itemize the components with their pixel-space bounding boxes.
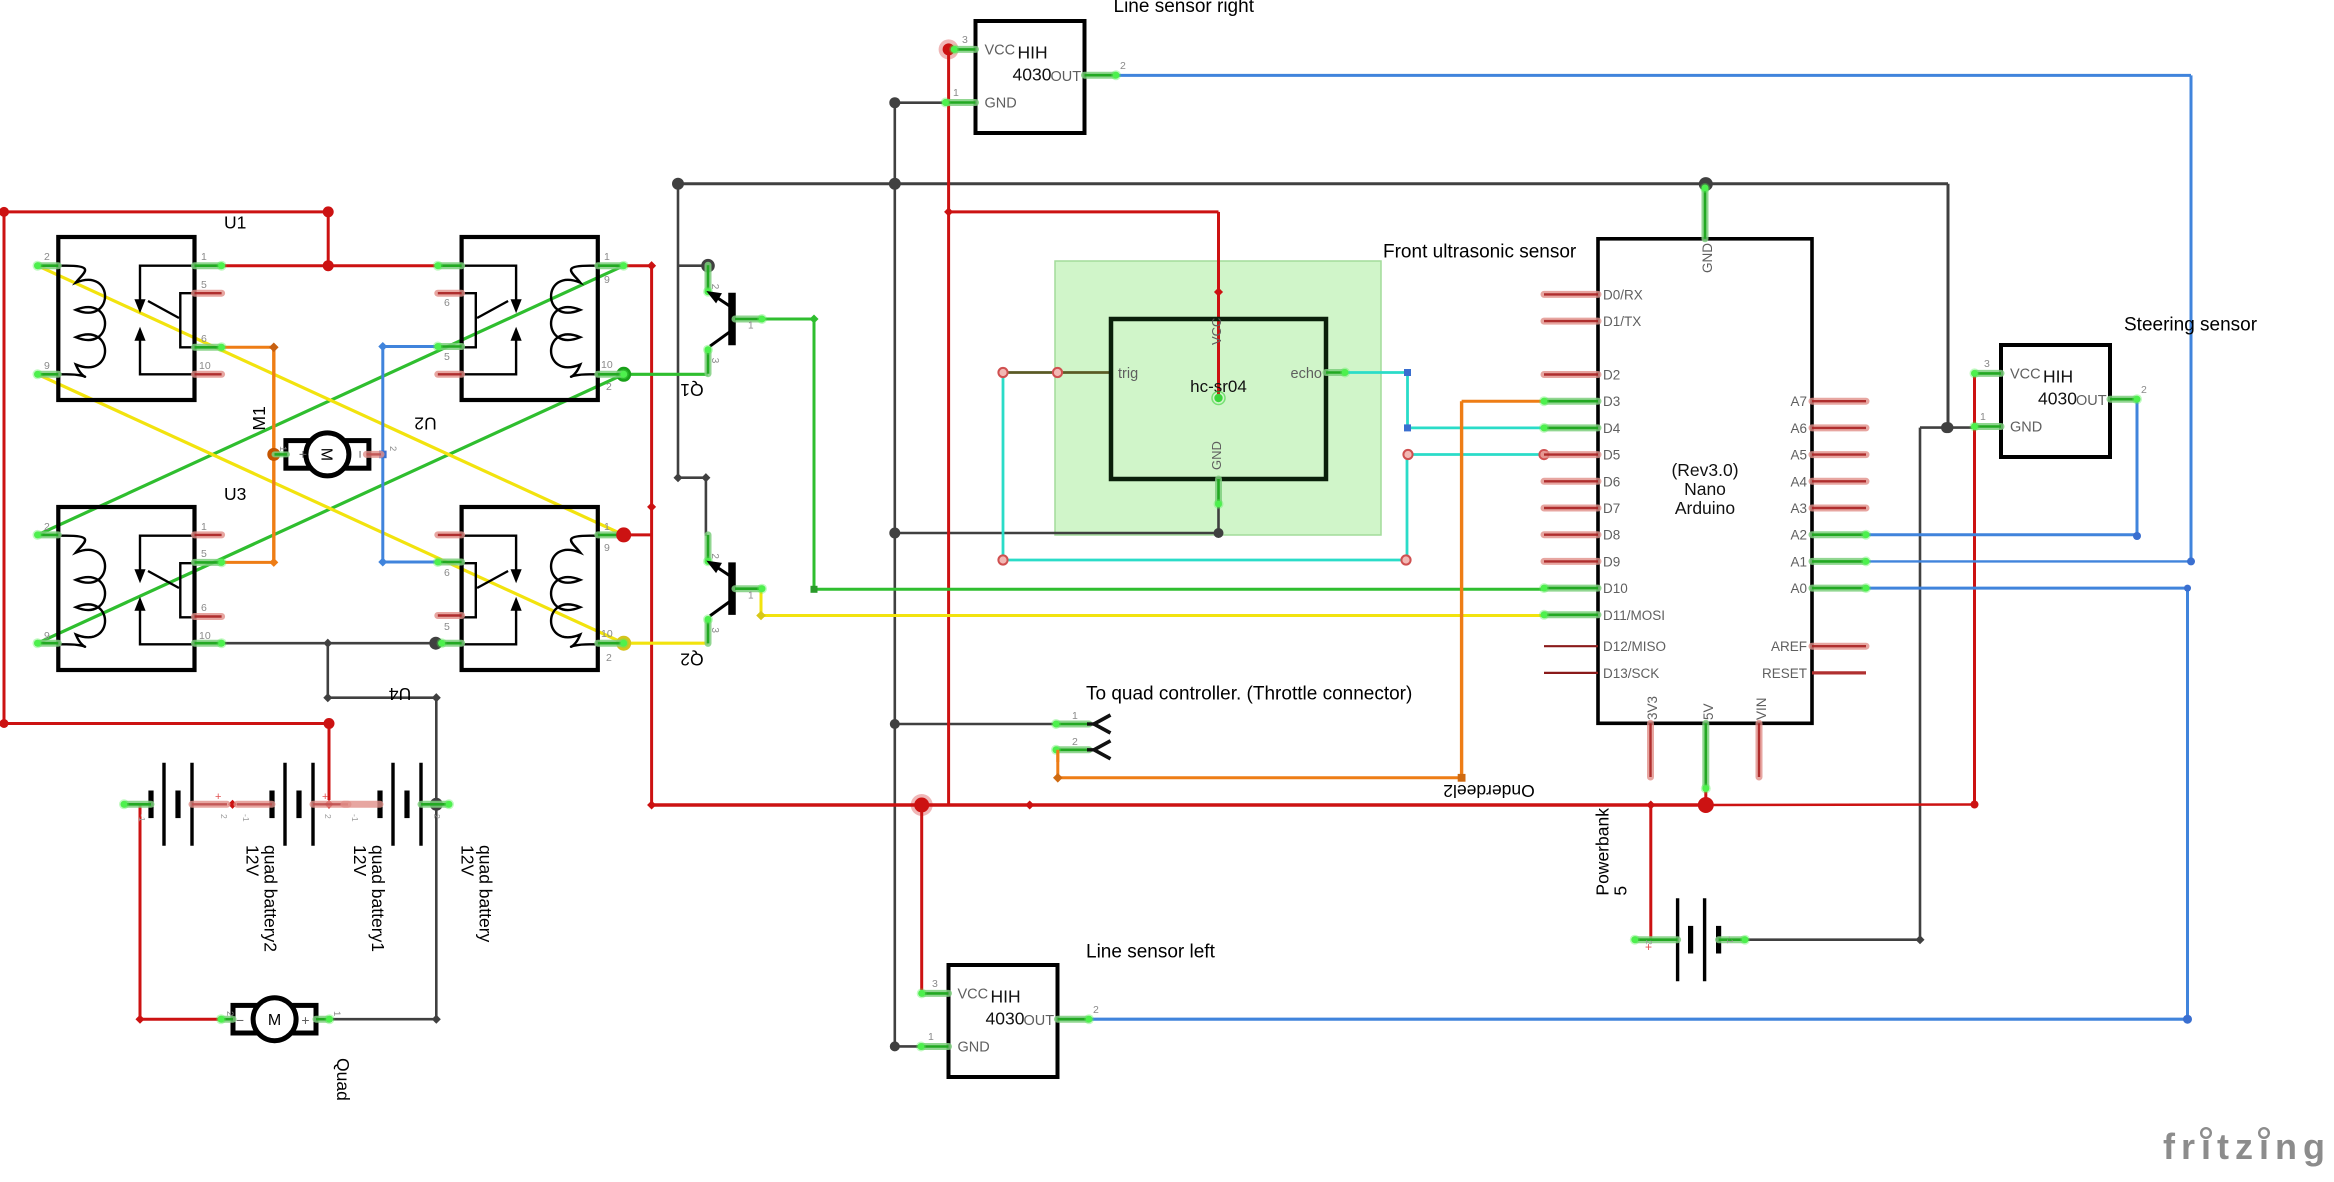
svg-text:1: 1: [277, 446, 288, 451]
svg-text:6: 6: [201, 602, 207, 614]
svg-text:2: 2: [387, 446, 398, 451]
svg-text:trig: trig: [1118, 366, 1138, 382]
svg-text:−: −: [236, 1012, 244, 1028]
svg-text:3V3: 3V3: [1645, 696, 1660, 720]
svg-text:-1: -1: [137, 814, 147, 822]
svg-text:1: 1: [201, 521, 207, 533]
svg-text:2: 2: [709, 553, 720, 559]
svg-text:1: 1: [748, 590, 754, 601]
svg-text:5: 5: [444, 621, 450, 633]
svg-text:-1: -1: [350, 814, 360, 822]
svg-text:+: +: [322, 791, 328, 803]
svg-text:12V: 12V: [458, 845, 478, 876]
svg-text:-1: -1: [1725, 936, 1735, 944]
svg-text:10: 10: [601, 628, 613, 640]
svg-text:1: 1: [201, 251, 207, 263]
svg-text:5: 5: [201, 548, 207, 560]
svg-text:1: 1: [1072, 710, 1078, 722]
svg-text:D9: D9: [1603, 554, 1620, 569]
svg-text:Q1: Q1: [680, 380, 703, 400]
svg-text:5: 5: [201, 279, 207, 291]
svg-text:10: 10: [199, 360, 211, 372]
svg-text:2: 2: [432, 814, 442, 819]
svg-text:2: 2: [1644, 940, 1654, 945]
svg-text:AREF: AREF: [1771, 639, 1807, 654]
svg-text:VCC: VCC: [1209, 318, 1224, 345]
svg-text:1: 1: [1980, 411, 1986, 423]
svg-text:HIH: HIH: [1018, 42, 1048, 62]
svg-text:D0/RX: D0/RX: [1603, 287, 1643, 302]
svg-text:10: 10: [601, 359, 613, 371]
svg-text:OUT: OUT: [1024, 1013, 1055, 1029]
svg-text:Quad: Quad: [333, 1058, 353, 1101]
svg-text:A5: A5: [1790, 448, 1807, 463]
svg-text:M: M: [268, 1012, 281, 1029]
svg-text:To quad controller. (Throttle: To quad controller. (Throttle connector): [1086, 684, 1412, 705]
svg-text:+: +: [215, 791, 221, 803]
svg-text:quad battery1: quad battery1: [368, 845, 388, 952]
svg-text:Q2: Q2: [680, 650, 703, 670]
svg-text:2: 2: [606, 381, 612, 393]
svg-text:12V: 12V: [243, 845, 263, 876]
svg-text:2: 2: [219, 814, 229, 819]
svg-text:+: +: [301, 1012, 309, 1028]
svg-text:fritzing: fritzing: [2163, 1126, 2331, 1167]
svg-text:6: 6: [444, 297, 450, 309]
svg-text:5V: 5V: [1701, 703, 1716, 720]
svg-text:2: 2: [1072, 736, 1078, 748]
svg-text:A1: A1: [1790, 554, 1807, 569]
svg-text:OUT: OUT: [2076, 393, 2107, 409]
svg-text:1: 1: [953, 87, 959, 99]
svg-text:Front ultrasonic sensor: Front ultrasonic sensor: [1383, 242, 1577, 263]
svg-text:D13/SCK: D13/SCK: [1603, 666, 1659, 681]
svg-text:quad battery2: quad battery2: [261, 845, 281, 952]
svg-text:echo: echo: [1291, 366, 1322, 382]
svg-text:GND: GND: [1700, 243, 1715, 273]
svg-text:GND: GND: [958, 1040, 990, 1056]
svg-text:6: 6: [444, 567, 450, 579]
svg-text:4030: 4030: [986, 1008, 1025, 1028]
svg-text:HIH: HIH: [991, 986, 1021, 1006]
svg-text:2: 2: [2141, 384, 2147, 396]
svg-text:Powerbank: Powerbank: [1593, 808, 1613, 896]
svg-text:D8: D8: [1603, 528, 1620, 543]
svg-text:1: 1: [604, 521, 610, 533]
svg-text:D1/TX: D1/TX: [1603, 314, 1641, 329]
svg-text:9: 9: [44, 630, 50, 642]
svg-text:4030: 4030: [2038, 388, 2077, 408]
svg-text:2: 2: [606, 652, 612, 664]
svg-text:3: 3: [709, 358, 720, 364]
svg-text:M: M: [317, 448, 334, 461]
svg-text:VIN: VIN: [1754, 697, 1769, 720]
svg-text:2: 2: [1120, 60, 1126, 72]
svg-text:RESET: RESET: [1762, 666, 1807, 681]
svg-text:U3: U3: [224, 484, 246, 504]
svg-text:D3: D3: [1603, 394, 1620, 409]
svg-text:Onderdeel2: Onderdeel2: [1443, 781, 1534, 801]
svg-text:4030: 4030: [1013, 64, 1052, 84]
svg-text:A2: A2: [1790, 528, 1807, 543]
svg-text:VCC: VCC: [985, 42, 1016, 58]
svg-text:9: 9: [44, 360, 50, 372]
svg-text:A3: A3: [1790, 501, 1807, 516]
svg-text:D5: D5: [1603, 448, 1620, 463]
svg-text:A6: A6: [1790, 421, 1807, 436]
svg-text:VCC: VCC: [2010, 366, 2041, 382]
svg-text:D12/MISO: D12/MISO: [1603, 639, 1666, 654]
svg-text:GND: GND: [985, 96, 1017, 112]
svg-text:2: 2: [1093, 1004, 1099, 1016]
svg-text:GND: GND: [2010, 420, 2042, 436]
svg-text:12V: 12V: [350, 845, 370, 876]
svg-text:9: 9: [604, 274, 610, 286]
svg-text:9: 9: [604, 542, 610, 554]
svg-text:A7: A7: [1790, 394, 1807, 409]
svg-text:(Rev3.0): (Rev3.0): [1671, 460, 1738, 480]
svg-text:3: 3: [932, 978, 938, 990]
svg-text:Arduino: Arduino: [1675, 498, 1735, 518]
svg-text:M1: M1: [249, 406, 269, 430]
svg-text:U2: U2: [414, 414, 436, 434]
svg-text:2: 2: [44, 251, 50, 263]
svg-text:OUT: OUT: [1051, 69, 1082, 85]
svg-text:2: 2: [44, 521, 50, 533]
svg-text:2: 2: [709, 284, 720, 290]
svg-text:6: 6: [201, 333, 207, 345]
svg-text:D7: D7: [1603, 501, 1620, 516]
svg-text:1: 1: [331, 1011, 342, 1016]
svg-text:HIH: HIH: [2043, 366, 2073, 386]
svg-text:A0: A0: [1790, 581, 1807, 596]
svg-text:5: 5: [1611, 886, 1631, 896]
svg-text:1: 1: [748, 321, 754, 332]
svg-text:-1: -1: [241, 814, 251, 822]
svg-text:2: 2: [224, 1011, 235, 1016]
svg-text:1: 1: [928, 1031, 934, 1043]
svg-text:Nano: Nano: [1684, 479, 1726, 499]
svg-text:2: 2: [323, 814, 333, 819]
svg-text:Line sensor left: Line sensor left: [1086, 942, 1216, 963]
svg-text:GND: GND: [1209, 441, 1224, 470]
svg-text:3: 3: [1984, 358, 1990, 370]
svg-text:D2: D2: [1603, 368, 1620, 383]
svg-text:U1: U1: [224, 213, 246, 233]
svg-text:Steering sensor: Steering sensor: [2124, 315, 2258, 336]
svg-text:D11/MOSI: D11/MOSI: [1603, 608, 1665, 623]
svg-text:A4: A4: [1790, 474, 1807, 489]
svg-text:3: 3: [962, 34, 968, 46]
svg-text:U4: U4: [389, 684, 412, 704]
svg-text:3: 3: [709, 627, 720, 633]
svg-text:10: 10: [199, 630, 211, 642]
svg-text:5: 5: [444, 351, 450, 363]
svg-text:D6: D6: [1603, 474, 1620, 489]
svg-text:quad battery: quad battery: [476, 845, 496, 943]
svg-text:+: +: [295, 450, 311, 458]
svg-text:D10: D10: [1603, 581, 1628, 596]
svg-text:Line sensor right: Line sensor right: [1114, 0, 1255, 17]
svg-text:VCC: VCC: [958, 986, 989, 1002]
svg-text:hc-sr04: hc-sr04: [1190, 377, 1247, 396]
svg-text:D4: D4: [1603, 421, 1621, 436]
svg-text:1: 1: [604, 251, 610, 263]
